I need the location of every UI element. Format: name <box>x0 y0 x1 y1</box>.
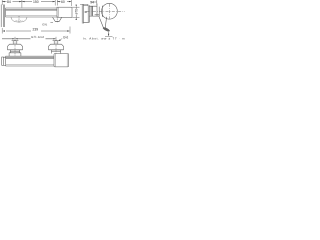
svg-text:lv. Abst. ww ± 77 · m: lv. Abst. ww ± 77 · m <box>83 37 125 41</box>
svg-text:84: 84 <box>7 0 11 4</box>
svg-text:239: 239 <box>33 27 39 31</box>
body <box>89 4 99 17</box>
end block <box>57 7 72 17</box>
svg-text:G½: G½ <box>63 35 68 39</box>
dashed arc (hidden escutcheon) <box>11 17 27 22</box>
wall plate <box>1 5 4 28</box>
svg-text:G½ A12: G½ A12 <box>31 35 44 39</box>
right escutcheon <box>48 40 63 54</box>
knob circle <box>102 3 118 19</box>
dim 150 <box>22 1 55 3</box>
wall line <box>82 5 83 24</box>
left escutcheon <box>7 40 22 57</box>
bar body <box>6 8 57 17</box>
thermostat block <box>54 54 69 67</box>
svg-text:150: 150 <box>33 0 39 4</box>
dim 84 <box>2 1 22 3</box>
dim o70 vertical <box>75 7 77 17</box>
dim 150 +/- 12 <box>2 38 54 40</box>
center lines <box>87 11 125 13</box>
svg-text:G½: G½ <box>42 22 47 26</box>
top small dim <box>80 4 88 6</box>
lever <box>99 16 107 28</box>
dim 60 <box>57 1 71 3</box>
bar front view <box>2 57 4 65</box>
svg-text:94: 94 <box>90 0 94 4</box>
svg-text:ø70: ø70 <box>74 9 78 15</box>
texts <box>7 0 125 41</box>
svg-text:60: 60 <box>61 0 65 4</box>
lever foot <box>103 27 110 32</box>
dim 239 <box>6 30 68 32</box>
outlet nipple under block <box>53 17 62 21</box>
escutcheon profile <box>83 5 99 22</box>
G1/2 leader <box>59 39 62 41</box>
knob flat chord <box>101 6 103 17</box>
bottom small dim under lever <box>108 32 110 36</box>
